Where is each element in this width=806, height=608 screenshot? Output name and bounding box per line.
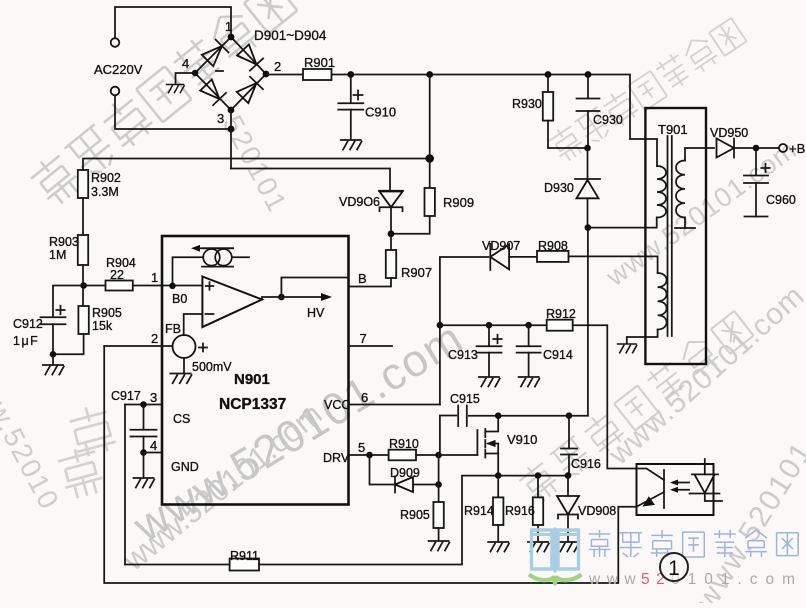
svg-text:D909: D909 [390, 466, 420, 480]
op-amp U N901 NCP1337 box [162, 236, 349, 505]
wire R930 bottom lead [548, 121, 588, 148]
wire D909 to gate net [413, 484, 439, 486]
arrow V910 body [488, 444, 498, 454]
junction node 3 lower tap [228, 126, 235, 133]
wire VD950 to +B [734, 147, 779, 149]
capacitor C960 [744, 176, 768, 184]
diode D902 bridge top-right [237, 45, 256, 65]
junction VCC rail [437, 322, 444, 329]
wire R914 ground lead [497, 525, 499, 541]
arrow current source [198, 247, 233, 249]
svg-text:R905: R905 [400, 508, 430, 522]
ground below VD908 [558, 542, 579, 552]
diode VD907 [490, 244, 509, 269]
wire current source right lead [232, 256, 249, 258]
junction C960 node [753, 145, 760, 152]
wire AC bottom to bridge node 3 [115, 96, 228, 130]
capacitor C912 [41, 317, 66, 324]
svg-text:3: 3 [217, 111, 224, 126]
svg-text:R905: R905 [92, 306, 122, 320]
mark minus bridge center [216, 70, 223, 72]
wire drain node to C916 node [498, 415, 569, 417]
optocoupler N902 box [637, 464, 714, 515]
svg-text:6: 6 [361, 390, 368, 405]
svg-text:R910: R910 [389, 437, 419, 451]
junction source sense node [495, 472, 502, 479]
diode D930 triangle [577, 180, 599, 198]
svg-text:+B: +B [789, 141, 805, 156]
wire snubber return vertical [569, 228, 588, 416]
ground below R914 [488, 542, 509, 552]
diode D930 cathode bar [575, 178, 600, 180]
wire output to pin B [281, 278, 348, 298]
svg-text:500mV: 500mV [192, 360, 232, 374]
wire D930 top lead [587, 148, 589, 179]
capacitor C915 [458, 406, 467, 427]
wire net N to VD906 [231, 169, 390, 191]
wire C914 bottom lead [528, 353, 530, 376]
wire VD908 ground lead [567, 515, 569, 542]
wire current source top bar [203, 247, 233, 249]
resistor R905 divider [78, 306, 88, 334]
svg-text:R914: R914 [464, 504, 494, 518]
current source I1 [203, 249, 220, 266]
resistor R905 gate [433, 502, 443, 528]
inductor T901 aux [658, 273, 667, 330]
svg-text:HV: HV [307, 306, 325, 320]
resistor R908 [537, 251, 569, 262]
junction VD906 R907 R909 [388, 230, 395, 237]
wire AC top feed [115, 7, 231, 38]
resistor R902 [78, 170, 88, 198]
inductor T901 secondary [676, 161, 685, 218]
wire VD908 top lead [567, 476, 569, 495]
capacitor C930 [577, 99, 600, 112]
junction R916 top [535, 472, 542, 479]
wire R902 to R903 [82, 198, 84, 235]
wire pin 2 FB [104, 345, 172, 347]
wire D930 bottom lead [587, 198, 589, 227]
svg-text:GND: GND [171, 460, 199, 474]
svg-text:C917: C917 [111, 389, 141, 403]
arrow HV [281, 296, 322, 298]
svg-text:R912: R912 [546, 307, 576, 321]
diode VD906 base bar [379, 190, 403, 192]
wire C916 top lead [568, 416, 570, 449]
junction rail at C930 [585, 71, 592, 78]
svg-text:AC220V: AC220V [94, 62, 143, 77]
wire C917 top lead [143, 405, 145, 430]
wire current source bottom bar [202, 266, 233, 268]
svg-text:VCC: VCC [324, 398, 350, 412]
svg-text:V910: V910 [507, 432, 537, 447]
junction C916 top [566, 412, 573, 419]
wire node 3 down [230, 110, 232, 169]
source V 500mV [173, 335, 196, 358]
svg-text:C960: C960 [766, 193, 796, 207]
wire R911 left [125, 564, 230, 566]
wire C917 bottom lead [143, 437, 145, 453]
arrow opto light 2 [673, 489, 689, 491]
svg-text:R930: R930 [512, 97, 542, 111]
svg-text:1: 1 [225, 19, 232, 34]
ground below C910 [341, 140, 362, 150]
junction pin1 B0 [169, 283, 176, 290]
svg-text:15k: 15k [92, 319, 113, 333]
mark plus C960 [761, 164, 769, 172]
mark plus 500mV [199, 344, 207, 352]
svg-text:C912: C912 [13, 317, 43, 331]
wire opamp output [262, 297, 281, 300]
phototransistor bar [663, 470, 665, 508]
ground bar below C960 [745, 216, 768, 218]
wire VD906 to node [390, 207, 392, 234]
logo CJK title [589, 530, 799, 557]
svg-text:3: 3 [150, 390, 157, 405]
svg-text:B0: B0 [172, 292, 187, 306]
wire node to R904 [84, 285, 106, 287]
terminal AC line bottom [111, 87, 120, 96]
wire node2 to R901 [266, 74, 303, 76]
terminal AC line top [111, 38, 120, 47]
wire DRV to D909 [370, 455, 395, 485]
wire R909 bottom [391, 216, 430, 234]
wire R911 right to sense node [259, 476, 497, 565]
diode VD908 [557, 496, 579, 515]
svg-text:7: 7 [360, 331, 367, 346]
junction VD908 top [565, 472, 572, 479]
wire R908 to aux winding [569, 256, 658, 273]
watermark CJK row top-left [27, 0, 299, 209]
arrow opto light 1 [673, 482, 689, 484]
diode D904 bridge bottom-right [237, 83, 257, 103]
junction rail at R909 branch [426, 71, 433, 78]
svg-text:4: 4 [150, 438, 157, 453]
svg-text:R902: R902 [91, 171, 121, 185]
watermark CJK row right-middle [516, 308, 755, 506]
ground below C912 [43, 365, 64, 375]
watermark CJK fragment left-edge a [66, 402, 117, 459]
wire secondary top lead [685, 148, 714, 161]
wire pin 3 CS [125, 404, 162, 406]
junction D909 R905 [435, 481, 442, 488]
wire gate net down [438, 455, 440, 485]
wire C914 top lead [528, 325, 530, 346]
mark plus C910 [354, 91, 363, 100]
wire C916 bottom lead [568, 455, 570, 476]
wire R930 top lead [547, 75, 549, 93]
svg-text:NCP1337: NCP1337 [219, 396, 286, 413]
junction snubber top [584, 145, 591, 152]
resistor R914 [493, 497, 503, 525]
wire pin1 to current source [173, 257, 203, 286]
wire C915 left lead [440, 416, 456, 456]
wire gate lead [439, 454, 478, 456]
svg-text:R908: R908 [538, 239, 568, 253]
svg-text:R911: R911 [230, 549, 259, 563]
mark plus C913 [493, 335, 501, 343]
junction C917 top [140, 401, 147, 408]
svg-text:22: 22 [110, 268, 124, 282]
svg-text:DRV: DRV [323, 451, 350, 465]
resistor R912 [547, 320, 573, 331]
svg-text:VD907: VD907 [482, 239, 520, 253]
wire opamp minus lead [184, 314, 203, 335]
svg-text:FB: FB [165, 322, 181, 336]
svg-text:1μF: 1μF [13, 334, 39, 348]
wire C913 top lead [488, 325, 490, 346]
wire C960 top lead [755, 148, 757, 175]
svg-text:2: 2 [151, 331, 158, 346]
ground below C913 [479, 377, 500, 387]
junction rail at C910 [347, 71, 354, 78]
wire C910 top lead [350, 75, 352, 104]
ground bar secondary [675, 227, 695, 229]
wire C913 bottom lead [488, 353, 490, 376]
ground below R905 gate [429, 541, 450, 551]
mark circled 1 [660, 553, 688, 581]
svg-text:3.3M: 3.3M [91, 185, 119, 199]
junction net A at R909 [425, 154, 434, 163]
resistor R911 [230, 559, 259, 571]
phototransistor collector [637, 469, 665, 481]
svg-text:C930: C930 [593, 113, 623, 127]
svg-text:2: 2 [274, 59, 281, 74]
wire VCC rail [440, 324, 547, 326]
svg-text:4: 4 [182, 56, 189, 71]
capacitor C914 [517, 346, 541, 352]
wire V910 source [485, 454, 498, 476]
diode VD906 [380, 192, 403, 208]
capacitor C913 [477, 346, 502, 352]
svg-text:C910: C910 [365, 105, 396, 120]
watermark CJK row top-right [546, 15, 747, 164]
capacitor C916 [561, 449, 577, 455]
junction bridge node 3 [228, 107, 235, 114]
wire 500mV to ground [183, 358, 185, 372]
svg-text:B: B [358, 271, 367, 286]
ground aux winding [618, 344, 637, 353]
capacitor C910 [338, 103, 363, 109]
wire R912 to opto feed [573, 325, 637, 468]
wire pin 5 DRV [349, 454, 389, 456]
transistor V910 gate bar [476, 430, 478, 455]
svg-text:5: 5 [358, 440, 365, 455]
junction bridge node 2 [263, 71, 270, 78]
wire R904 to pin 1 [133, 285, 203, 287]
svg-text:VD908: VD908 [578, 504, 616, 518]
svg-text:N901: N901 [234, 371, 270, 388]
wire rail to R909 [429, 75, 431, 189]
wire primary bottom [588, 218, 657, 228]
svg-text:1M: 1M [49, 248, 66, 262]
ground below C914 [519, 377, 540, 387]
wire net A R902 to R909 node [83, 159, 430, 171]
transistor V910 channel segments [484, 429, 486, 458]
wire R901 to rail corner [332, 75, 658, 167]
ground below pin 4 [134, 478, 155, 488]
inductor T901 primary [657, 166, 666, 218]
svg-text:R916: R916 [505, 504, 535, 518]
junction rail at R930 [545, 71, 552, 78]
diode D901 bridge top-left [202, 46, 222, 66]
wire R907 to pin B [349, 278, 392, 287]
svg-text:1: 1 [151, 270, 158, 285]
wire C915 right lead [469, 415, 498, 417]
wire R914 top lead [497, 476, 499, 498]
junction opamp output [278, 294, 285, 301]
junction primary bottom [585, 224, 592, 231]
svg-text:1: 1 [668, 557, 680, 580]
wire FB net down [104, 346, 636, 583]
svg-text:C914: C914 [543, 348, 573, 362]
phototransistor emitter [637, 492, 664, 507]
terminal +B [779, 144, 787, 152]
svg-text:D930: D930 [544, 181, 574, 195]
ground at bridge node 4 [167, 85, 185, 93]
wire C910 bottom lead [350, 110, 352, 139]
wire VCC net vertical [440, 257, 488, 405]
svg-text:0101.com: 0101.com [671, 571, 803, 588]
diode D903 bridge bottom-left [200, 79, 219, 99]
svg-text:CS: CS [173, 412, 190, 426]
wire C960 bottom lead [755, 183, 757, 217]
junction divider node [80, 282, 87, 289]
mark plus C912 [56, 306, 64, 314]
junction DRV pin node [366, 452, 373, 459]
wire VD907 to R908 [509, 256, 537, 258]
wire pin 6 VCC [349, 404, 440, 406]
junction bridge node 1 [228, 34, 235, 41]
logo url row [588, 571, 803, 588]
transformer core lines [668, 136, 672, 336]
wire R916 ground lead [537, 525, 539, 541]
wire R905b to ground [438, 528, 440, 540]
resistor R909 [425, 188, 435, 216]
mark opamp plus input [206, 282, 214, 290]
diode D909 [395, 477, 413, 492]
wire C930 top lead [587, 75, 589, 99]
mark opamp minus input [206, 313, 214, 315]
junction gate node [435, 452, 442, 459]
wire bridge node 4 to ground [176, 73, 196, 83]
wire R903 to node [82, 265, 84, 306]
svg-text:C913: C913 [448, 348, 478, 362]
diode opto LED [692, 473, 718, 475]
wire R910 to gate node [416, 454, 439, 456]
wire secondary bottom lead [684, 218, 686, 229]
wire V910 drain [485, 416, 498, 432]
resistor R901 [303, 69, 332, 80]
svg-text:R903: R903 [49, 235, 79, 249]
svg-text:R901: R901 [304, 55, 335, 70]
svg-text:D901~D904: D901~D904 [254, 28, 327, 43]
op-amp A1 triangle [202, 277, 262, 328]
diode VD950 [717, 139, 735, 158]
svg-text:C916: C916 [571, 457, 601, 471]
wire bridge diamond sides [195, 37, 266, 110]
junction drain node [495, 412, 502, 419]
svg-text:VD950: VD950 [710, 126, 748, 140]
wire C930 bottom lead [587, 111, 589, 148]
transformer T901 box [645, 108, 706, 364]
svg-text:C915: C915 [450, 392, 480, 406]
ground below 500mV [170, 374, 191, 384]
resistor R930 [543, 92, 553, 121]
logo book icon [529, 528, 582, 584]
junction C912 ground node [50, 351, 57, 358]
svg-text:T901: T901 [658, 122, 688, 137]
resistor R916 [533, 497, 543, 525]
wire C912 bottom lead [52, 324, 54, 364]
junction rail C913 [486, 322, 493, 329]
wire R916 top lead [537, 476, 539, 498]
wire pin 7 stub [349, 345, 393, 347]
svg-text:R909: R909 [443, 195, 474, 210]
wire to R905b [438, 485, 440, 503]
resistor R910 [389, 450, 416, 461]
junction bridge node 4 [192, 70, 198, 76]
wire R905 bottom [53, 334, 84, 354]
wire sense row [497, 475, 568, 477]
svg-text:VD9O6: VD9O6 [339, 195, 380, 209]
wire aux bottom lead [627, 330, 658, 344]
resistor R904 [106, 281, 133, 291]
wire pin4 to ground [143, 453, 145, 478]
capacitor C917 [131, 430, 157, 437]
wire pin 4 GND [144, 452, 163, 454]
wire CS net down [124, 405, 126, 565]
watermark CJK fragment left-edge b [56, 444, 106, 500]
wire node to R907 [390, 234, 392, 250]
junction C917 bottom [140, 449, 147, 456]
resistor R907 [386, 250, 396, 278]
ground below R916 [528, 542, 549, 552]
resistor R903 [78, 235, 88, 265]
wire C912 top lead [53, 286, 84, 318]
junction rail C914 [525, 322, 532, 329]
svg-text:R907: R907 [401, 265, 432, 280]
